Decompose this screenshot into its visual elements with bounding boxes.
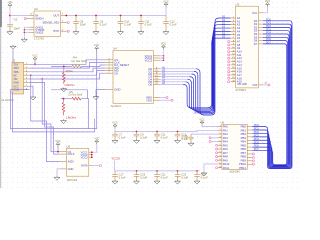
wire U1 OBO [160, 97, 166, 99]
no-connect YDO [171, 99, 173, 101]
U3 pin stub A19 [231, 81, 236, 83]
svg-text:PB11: PB11 [239, 166, 246, 170]
U6 pin stub R9 [247, 156, 252, 158]
wire branch to U5 CS [42, 79, 60, 152]
junction rowB C19 [136, 170, 138, 172]
ground U1 [93, 96, 99, 100]
wire U1 pin D2 [160, 73, 192, 75]
capacitor C8 [73, 16, 79, 31]
svg-text:J2: J2 [12, 58, 16, 62]
svg-text:AL3101: AL3101 [111, 104, 122, 108]
svg-text:EPCS4: EPCS4 [67, 178, 77, 182]
junction rowA C9 [136, 131, 138, 133]
U3 pin stub A5 [231, 34, 236, 36]
wire bus PD5 EPROM-to-U6 [252, 37, 288, 166]
wire J2 top [12, 50, 14, 63]
svg-text:0.1uF: 0.1uF [145, 23, 152, 27]
capacitor C9 [134, 131, 140, 139]
pin 4 stub (BYP) [61, 30, 68, 32]
no-connect U6 row11 [216, 167, 218, 169]
U3 pin stub A11 [231, 54, 236, 56]
wire bus PD4 EPROM-to-U6 [252, 34, 289, 166]
svg-text:TMS: TMS [13, 70, 19, 74]
ground C23 [175, 180, 181, 184]
U3 pin stub A12 [231, 57, 236, 59]
U3 pin stub D3 [259, 30, 264, 32]
U1 pin stub WS [105, 67, 113, 69]
junction rowB C23 [177, 170, 179, 172]
svg-text:28171: 28171 [194, 111, 202, 114]
wire U6 row4 [211, 141, 218, 143]
U6 pin stub L9 [218, 159, 222, 161]
svg-text:1.8kOhm: 1.8kOhm [66, 115, 77, 119]
wire J2 r1 to U1 CLK [29, 62, 105, 68]
U3 pin stub D5 [259, 36, 264, 38]
wire U2 vtrim [24, 29, 29, 31]
U3 pin stub A6 [231, 37, 236, 39]
svg-text:TDI: TDI [13, 77, 17, 81]
EPROM U3 body [236, 6, 259, 88]
wire VOUT rail [66, 15, 167, 17]
U5 pin stub GND [60, 168, 67, 170]
wire U2 gnd2 [24, 31, 29, 33]
wire R4 to R6 [63, 66, 65, 72]
junction rail cap C11 [140, 15, 142, 17]
J2 pin stub TDO [24, 67, 30, 69]
wire U5 DATA [92, 165, 100, 167]
no-connect U6 right row8 [252, 153, 254, 155]
wire J2 gnd drop [32, 86, 34, 96]
wire U6 vcc row0 [202, 125, 218, 126]
power flag VCC top [163, 1, 168, 8]
resistor R4 [72, 65, 82, 68]
wire J2 r4 to U1 CK [29, 73, 105, 79]
wire VCC rowA drop [114, 128, 116, 131]
svg-text:YDO: YDO [146, 98, 153, 102]
junction rail cap C8 [75, 15, 77, 17]
wire U1 pin D5 [160, 81, 185, 83]
ground C24 [194, 180, 200, 184]
J2 pin stub GND [24, 81, 30, 83]
no-connect U6 row3 [209, 137, 211, 139]
wire J2 r7 loop [10, 52, 96, 129]
svg-text:D7: D7 [254, 42, 258, 46]
wire U1 VCC2 [160, 57, 164, 59]
ground R6 [61, 88, 67, 92]
wire U1 VCC3 [160, 59, 164, 61]
U6 pin stub L8 [218, 156, 222, 158]
U1 pin stub CS [105, 59, 113, 61]
wire U5 gnd [57, 169, 60, 176]
svg-text:Do Not Stuff: Do Not Stuff [72, 59, 87, 63]
wire J2 r5 to U5 DCLK [29, 82, 60, 154]
power flag VCC R4 [94, 44, 99, 52]
wire U1 pin D1 [160, 70, 194, 72]
U5 pin stub VCC1 [89, 151, 92, 153]
no-connect A15 [228, 67, 230, 69]
junction U1 VCC3 [163, 59, 165, 61]
wire bus A5 U1-to-EPROM [185, 35, 230, 109]
U3 pin stub A18 [231, 77, 236, 79]
svg-text:27C801: 27C801 [236, 88, 247, 92]
capacitor C19 [134, 171, 140, 180]
ground C11 [154, 139, 160, 143]
svg-text:BYP: BYP [54, 29, 60, 33]
resistor R5h [72, 97, 81, 100]
ground C12 [163, 30, 169, 34]
flash U5 body [66, 148, 88, 176]
wire R4 left [51, 65, 72, 67]
wire U5 vcc vertical [91, 152, 93, 157]
svg-text:GND: GND [13, 81, 19, 85]
U1 pin stub D6 [153, 83, 160, 85]
U1 pin stub D2 [153, 73, 160, 75]
U1 pin stub VCC2 [153, 57, 160, 59]
wire bus PD0 EPROM-to-U6 [252, 21, 292, 169]
svg-text:PD7: PD7 [254, 147, 260, 151]
U3 pin stub D7 [259, 43, 264, 45]
U5 pin stub DCLK [60, 153, 67, 155]
wire VCC U5 left [57, 147, 59, 152]
wire VCC J2 drop [34, 62, 36, 65]
no-connect A16 [228, 71, 230, 73]
ground C21 [154, 180, 160, 184]
U1 pin stub D3 [153, 76, 160, 78]
J2 pin stub NC [24, 74, 30, 76]
no-connect U6 row9 [216, 159, 218, 161]
wire branch to U5 ASDI [31, 75, 60, 161]
U1 pin stub GND [105, 89, 113, 91]
U1 pin stub DA_RESET [105, 64, 113, 66]
junction rail cap C10 [120, 15, 122, 17]
svg-text:0.1uF: 0.1uF [140, 176, 147, 180]
ground C15 [188, 142, 194, 146]
junction R5 [63, 98, 65, 100]
U3 pin stub D6 [259, 40, 264, 42]
U6 pin stub R11 [247, 163, 252, 165]
U6 pin stub R6 [247, 146, 252, 148]
pin 2 stub (SENSE) [61, 22, 68, 24]
no-connect A13 [228, 61, 230, 63]
junction OUT rail [65, 15, 67, 17]
capacitor C11 [154, 131, 160, 139]
svg-text:0.1uF: 0.1uF [161, 136, 168, 140]
svg-text:PD4: PD4 [254, 137, 260, 141]
wire bus A2 U1-to-EPROM [192, 25, 231, 113]
U5 pin stub DATA [89, 165, 92, 167]
svg-text:U4: U4 [113, 47, 117, 51]
U6 pin stub L11 [218, 167, 222, 169]
svg-text:162H245: 162H245 [229, 170, 240, 174]
ground R7 [61, 119, 67, 123]
J2 pin stub TMS [24, 71, 30, 73]
U3 pin stub A2 [231, 24, 236, 26]
U3 pin stub A9 [231, 47, 236, 49]
U5 pin stub VCC3 [89, 156, 92, 158]
regulator U2 body [34, 11, 61, 36]
svg-text:C6: C6 [14, 18, 18, 22]
junction U5 CS [57, 151, 59, 153]
junction rowA C13 [177, 131, 179, 133]
svg-text:0.1uF: 0.1uF [181, 176, 188, 180]
capacitor C6 [7, 24, 13, 30]
capacitor C9 [93, 16, 99, 31]
no-connect OBO [166, 97, 168, 99]
J2 pin stub GND [24, 89, 30, 91]
U6 pin stub L1 [218, 129, 222, 131]
ground under C6 [7, 31, 13, 35]
svg-text:0.1uF: 0.1uF [124, 23, 131, 27]
power flag VCC U5 left [55, 140, 60, 147]
capacitor C21 [154, 171, 160, 180]
wire rail rowB [115, 170, 200, 172]
J2 pin stub TCK [24, 63, 30, 65]
ground C17 [112, 180, 118, 184]
junction r4 branch [42, 78, 43, 79]
connector J2 body [12, 62, 24, 94]
wire loop 2 [12, 92, 94, 132]
U6 pin stub L5 [218, 144, 222, 146]
junction U5 VCC 157.2 [91, 156, 93, 158]
ground C7 [112, 139, 118, 143]
capacitor C7 [112, 131, 118, 139]
svg-text:0.1uF: 0.1uF [119, 136, 126, 140]
svg-text:D6: D6 [149, 83, 153, 87]
U5 pin stub ASDI [60, 161, 67, 163]
no-connect A11 [228, 54, 230, 56]
capacitor C23 [175, 171, 181, 180]
ground U6 [201, 172, 207, 176]
U6 pin stub R7 [247, 150, 252, 152]
wire R5 right down [81, 99, 89, 129]
svg-text:TCK: TCK [13, 62, 18, 66]
U3 pin stub A4 [231, 30, 236, 32]
capacitor C17 [112, 171, 118, 180]
ground flag above J2 [10, 45, 16, 49]
U6 pin stub L10 [218, 163, 222, 165]
pin stub VTRIM [29, 29, 34, 31]
no-connect SENSE [67, 22, 69, 24]
wire U6 row3 [211, 137, 218, 139]
svg-text:U3: U3 [236, 2, 240, 6]
U1 pin stub MD [105, 70, 113, 72]
no-connect A17 [228, 74, 230, 76]
svg-text:VCC: VCC [252, 12, 257, 15]
sheet border [0, 0, 2, 188]
junction +5V/IN [9, 15, 11, 17]
transceiver U6 body [222, 124, 247, 169]
junction J2 row0 [34, 63, 36, 65]
U3 pin stub A7 [231, 40, 236, 42]
svg-text:12-HC2SB: 12-HC2SB [1, 98, 14, 102]
wire bus A4 U1-to-EPROM [187, 31, 230, 110]
wire bus PD6 EPROM-to-U6 [252, 41, 287, 166]
svg-text:DB GRP: DB GRP [238, 83, 248, 86]
capacitor C10 [118, 16, 124, 31]
ground C13 [175, 139, 181, 143]
svg-text:0Ohm: 0Ohm [66, 69, 73, 73]
U6 pin stub L6 [218, 148, 222, 150]
junction U1 VCC1 [163, 55, 165, 57]
ground C9 [93, 30, 99, 34]
svg-text:PA11: PA11 [223, 166, 230, 170]
ground C8 [73, 30, 79, 34]
U1 pin stub OBO [153, 97, 160, 99]
wire U1 YDO [160, 99, 171, 101]
wire bus A6 U1-to-EPROM [183, 38, 230, 108]
power flag VCC U5 right [94, 137, 99, 144]
wire U1 VCC vertical [163, 49, 165, 60]
wire R5 left [61, 98, 72, 100]
wire bus PD2 EPROM-to-U6 [252, 27, 290, 167]
MCU U4 body [113, 51, 153, 104]
svg-text:VSS: VSS [252, 84, 257, 87]
wire U1 pin D0 [160, 68, 196, 70]
svg-text:SENSE_ADJ: SENSE_ADJ [42, 21, 59, 25]
no-connect A10 [228, 51, 230, 53]
svg-text:U5: U5 [66, 145, 70, 149]
U6 pin stub R3 [247, 136, 252, 138]
no-connect BYP [67, 30, 69, 32]
capacitor C13 [175, 131, 181, 139]
junction rowB C21 [156, 170, 158, 172]
wire +5V to IN pin [10, 15, 29, 17]
ground J2 [30, 96, 36, 100]
no-connect U6 right row11 [252, 163, 254, 165]
svg-text:PD1: PD1 [254, 127, 260, 131]
U6 pin stub R4 [247, 139, 252, 141]
power flag VCC U1 [161, 43, 166, 50]
svg-text:OUT: OUT [53, 14, 59, 18]
svg-text:GND: GND [68, 167, 74, 171]
U3 pin stub A8 [231, 44, 236, 46]
no-connect A9 [228, 47, 230, 49]
svg-text:PD6: PD6 [254, 144, 260, 148]
svg-text:10uF: 10uF [80, 23, 87, 27]
svg-text:PD0: PD0 [254, 123, 260, 127]
svg-text:0.1uF: 0.1uF [201, 176, 208, 180]
U3 pin stub D4 [259, 33, 264, 35]
U1 pin stub D1 [153, 70, 160, 72]
U3 pin stub A17 [231, 74, 236, 76]
U6 pin stub L3 [218, 137, 222, 139]
wire J2 r0 to U1 CS [29, 60, 105, 65]
no-connect A12 [228, 57, 230, 59]
no-connect DATA [100, 165, 102, 167]
wire VCC U5 right [92, 144, 97, 152]
U3 pin stub D0 [259, 20, 264, 22]
svg-text:U2: U2 [34, 7, 38, 11]
capacitor C24 [194, 171, 200, 180]
wire U3 VSS [263, 84, 268, 86]
no-connect U6 row6 [216, 148, 218, 150]
wire U2 gnd cluster [24, 27, 29, 38]
wire U1 pin D3 [160, 76, 190, 78]
svg-text:DATA: DATA [81, 164, 88, 168]
pin 1 stub (OUT) [61, 15, 66, 17]
U6 pin stub R8 [247, 153, 252, 155]
svg-text:VCC: VCC [163, 1, 168, 4]
no-connect VSS [268, 84, 270, 86]
wire U6 row2 [191, 133, 218, 135]
U1 pin stub D4 [153, 78, 160, 80]
U3 pin stub D1 [259, 23, 264, 25]
capacitor C12 [163, 16, 169, 31]
svg-text:PD3: PD3 [254, 133, 260, 137]
junction rowA C11 [156, 131, 158, 133]
no-connect U6 row5 [216, 144, 218, 146]
svg-text:LT1763: LT1763 [34, 36, 44, 40]
wire bus A1 U1-to-EPROM [194, 21, 231, 113]
capacitor C15 [188, 134, 193, 142]
U1 pin stub D5 [153, 81, 160, 83]
pin stub GND2 [29, 31, 34, 33]
ground C11 [138, 30, 144, 34]
U6 pin stub L0 [218, 126, 222, 128]
J2 pin stub VCC [24, 85, 30, 87]
svg-text:1.8kOhm: 1.8kOhm [64, 83, 75, 87]
pin 8 stub (IN) [29, 15, 34, 17]
no-connect SHDN [24, 18, 26, 20]
junction gnd cluster a [24, 29, 25, 30]
wire U1 pin D6 [160, 83, 183, 85]
U1 pin stub D0 [153, 68, 160, 70]
U6 pin stub R0 [247, 126, 252, 128]
svg-text:0.1uF: 0.1uF [140, 136, 147, 140]
U5 pin stub CS [60, 151, 67, 153]
svg-text:DCLK: DCLK [68, 152, 75, 156]
U6 pin stub R1 [247, 129, 252, 131]
U6 pin stub L4 [218, 141, 222, 143]
wire U1 pin D4 [160, 78, 187, 80]
ground C19 [134, 180, 140, 184]
wire R4 right to U1 [81, 65, 105, 66]
svg-text:+5V: +5V [8, 1, 13, 4]
power flag VCC J2 [32, 55, 37, 62]
svg-text:ASDI: ASDI [68, 160, 74, 164]
U3 pin stub A16 [231, 71, 236, 73]
resistor R6 [63, 73, 66, 84]
svg-text:PD2: PD2 [254, 130, 260, 134]
power flag +5V [8, 1, 13, 8]
U1 pin stub VCC1 [153, 55, 160, 57]
U1 pin stub YDO [153, 99, 160, 101]
no-connect A7 [228, 40, 230, 42]
svg-text:GND: GND [114, 88, 120, 92]
junction rail cap C9 [95, 15, 97, 17]
no-connect A18 [228, 77, 230, 79]
wire +5V vertical [9, 8, 11, 24]
wire bus PD1 EPROM-to-U6 [252, 24, 291, 168]
J2 pin stub TDI [24, 78, 30, 80]
U1 pin stub VCC3 [153, 59, 160, 61]
junction U5 VCC 152.2 [91, 151, 93, 153]
no-connect A8 [228, 44, 230, 46]
U3 pin stub A14 [231, 64, 236, 66]
wire J2 r2 to U1 WS [29, 68, 105, 72]
U1 pin stub CLK [105, 61, 113, 63]
U3 pin stub A10 [231, 51, 236, 53]
svg-text:VCC33: VCC33 [112, 157, 121, 161]
wire U1 VCC1 [160, 55, 164, 57]
pin stub GND1 [29, 26, 34, 28]
power flag VCC rowA [112, 122, 117, 129]
U6 pin stub R5 [247, 143, 252, 145]
svg-text:PD5: PD5 [254, 140, 260, 144]
svg-text:CK: CK [114, 71, 118, 75]
wire R5 to R7 [63, 99, 65, 103]
no-connect A19 [228, 81, 230, 83]
